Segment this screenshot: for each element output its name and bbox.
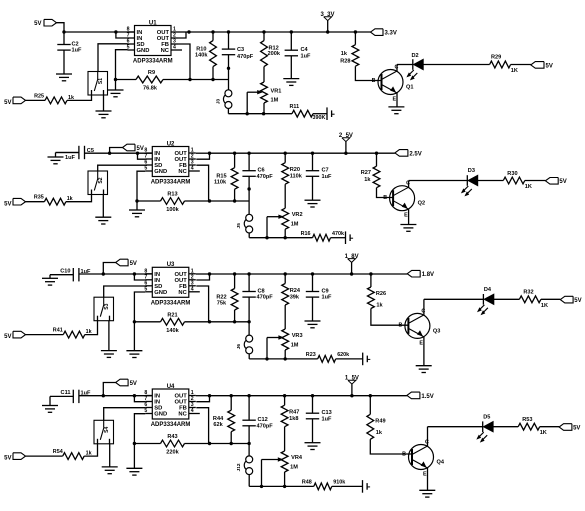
resistor R15 110k divider bbox=[214, 153, 238, 201]
resistor R13 100k feedback bbox=[137, 192, 211, 214]
resistor R12 200k bbox=[261, 32, 281, 67]
svg-text:U3: U3 bbox=[167, 262, 175, 268]
svg-text:S4: S4 bbox=[104, 427, 110, 433]
potentiometer VR3 1M bbox=[267, 305, 303, 359]
svg-text:R29: R29 bbox=[491, 55, 501, 61]
svg-text:3.3V: 3.3V bbox=[385, 31, 397, 37]
svg-text:R53: R53 bbox=[522, 417, 532, 423]
svg-text:470pF: 470pF bbox=[237, 54, 254, 60]
svg-text:R13: R13 bbox=[167, 192, 177, 198]
capacitor C10 1uF input bbox=[50, 268, 91, 281]
svg-text:R54: R54 bbox=[53, 449, 63, 455]
svg-text:E: E bbox=[423, 472, 427, 478]
node 1_5V power flag bbox=[345, 376, 359, 396]
resistor R54 1k bbox=[26, 444, 98, 460]
svg-text:R23: R23 bbox=[306, 352, 316, 358]
svg-text:GND: GND bbox=[137, 48, 150, 54]
op-amp U3 ADP3334ARM regulator bbox=[144, 262, 199, 306]
wire OUT pins junction U2 bbox=[196, 152, 211, 160]
wire FB line U3 bbox=[209, 320, 250, 323]
connector 5V right U3 row bbox=[560, 296, 581, 304]
svg-text:VR2: VR2 bbox=[292, 212, 303, 218]
resistor R28 1k bbox=[340, 32, 359, 66]
connector 5V input U2 row bbox=[110, 144, 144, 153]
ground Q4 bbox=[419, 490, 435, 497]
svg-text:R28: R28 bbox=[340, 58, 350, 64]
svg-text:R35: R35 bbox=[34, 195, 44, 201]
svg-text:75k: 75k bbox=[217, 301, 227, 307]
ground U1 GND bbox=[108, 90, 124, 97]
svg-text:1k: 1k bbox=[364, 177, 371, 183]
svg-text:R32: R32 bbox=[523, 290, 533, 296]
svg-text:E: E bbox=[419, 340, 423, 346]
svg-text:R9: R9 bbox=[148, 70, 155, 76]
wire IN pin7 tie U4 bbox=[134, 396, 145, 402]
svg-text:1K: 1K bbox=[540, 430, 547, 436]
svg-text:J3: J3 bbox=[216, 99, 222, 105]
switch S2 bbox=[88, 171, 108, 195]
potentiometer VR2 1M bbox=[267, 184, 303, 238]
jumper J3 row1 bbox=[216, 90, 232, 109]
ground S1 bbox=[96, 95, 112, 118]
transistor Q1 bbox=[378, 65, 413, 103]
wire FB vertical U4 bbox=[196, 408, 208, 444]
wire OUT rail row1 bbox=[189, 30, 371, 33]
transistor Q2 bbox=[390, 181, 425, 219]
svg-text:1uF: 1uF bbox=[301, 53, 312, 59]
svg-text:Q4: Q4 bbox=[437, 460, 445, 466]
LED D3 bbox=[461, 168, 478, 196]
wire OUT rail U4 bbox=[210, 394, 407, 397]
resistor R21 140k feedback bbox=[134, 312, 211, 334]
wire Q3 base bbox=[371, 309, 409, 329]
connector 5V input U3 row bbox=[103, 259, 137, 274]
svg-text:1K: 1K bbox=[511, 68, 518, 74]
connector 5V row1 lower bbox=[4, 97, 25, 106]
ground switch S3 bbox=[101, 321, 117, 358]
svg-text:Q2: Q2 bbox=[418, 201, 425, 207]
resistor R48 910k bbox=[302, 480, 363, 490]
wire GND pin5 U3 bbox=[133, 292, 146, 351]
wire input rail U2 bbox=[85, 152, 153, 155]
wire jumper to lower line U4 bbox=[249, 475, 314, 488]
svg-text:ADP3334ARM: ADP3334ARM bbox=[151, 180, 191, 186]
svg-text:J6: J6 bbox=[236, 344, 242, 350]
ground Q2 bbox=[400, 225, 416, 232]
resistor R22 75k divider bbox=[216, 274, 238, 322]
wire SD to switch U4 bbox=[104, 408, 146, 421]
svg-text:1K: 1K bbox=[541, 303, 548, 309]
wire SD to S1 row1 bbox=[98, 44, 128, 72]
svg-text:470pF: 470pF bbox=[257, 174, 274, 180]
wire FB vertical U3 bbox=[196, 286, 208, 322]
connector 5V right U2 row bbox=[545, 178, 566, 186]
wire Q2 collector bbox=[409, 181, 468, 188]
svg-text:C4: C4 bbox=[301, 47, 309, 53]
wire Q1 base bbox=[355, 66, 381, 84]
wire GND pin5 U2 bbox=[135, 171, 145, 210]
svg-text:220k: 220k bbox=[166, 450, 179, 456]
node 2_5V power flag bbox=[339, 133, 353, 153]
svg-text:C6: C6 bbox=[258, 168, 265, 174]
svg-text:1uF: 1uF bbox=[322, 416, 333, 422]
ground C4 bbox=[283, 79, 299, 86]
svg-text:620k: 620k bbox=[337, 352, 349, 358]
svg-text:Q1: Q1 bbox=[406, 85, 413, 91]
ground C2 bbox=[56, 74, 72, 81]
svg-text:R10: R10 bbox=[196, 47, 206, 53]
svg-text:R30: R30 bbox=[507, 171, 517, 177]
svg-text:5V: 5V bbox=[4, 456, 11, 462]
wire FB vertical row1 bbox=[178, 44, 190, 80]
op-amp U4 ADP3334ARM regulator bbox=[144, 384, 199, 428]
ground C9 bbox=[305, 321, 321, 328]
svg-text:ADP3334ARM: ADP3334ARM bbox=[151, 422, 191, 428]
svg-text:5V: 5V bbox=[137, 146, 144, 152]
svg-text:1.8V: 1.8V bbox=[422, 272, 434, 278]
wire FB line U2 bbox=[209, 199, 250, 202]
wire GND pin5 U4 bbox=[133, 414, 146, 469]
svg-text:B: B bbox=[383, 195, 387, 201]
resistor R32 1K bbox=[519, 290, 560, 309]
svg-text:B: B bbox=[398, 323, 402, 329]
wire IN pin7 tie U2 bbox=[138, 153, 146, 159]
svg-text:4: 4 bbox=[191, 408, 194, 414]
svg-text:E: E bbox=[393, 97, 397, 103]
svg-text:R49: R49 bbox=[375, 418, 385, 424]
svg-text:D2: D2 bbox=[412, 53, 419, 59]
connector 5V input row1 bbox=[34, 19, 56, 27]
wire SD to switch U3 bbox=[104, 286, 146, 297]
svg-text:100k: 100k bbox=[166, 207, 179, 213]
wire jumper to lower line U2 bbox=[249, 233, 312, 239]
svg-text:ADP3334ARM: ADP3334ARM bbox=[151, 301, 191, 307]
wire OUT pins junction row1 bbox=[178, 30, 191, 38]
resistor R23 620k bbox=[306, 352, 363, 362]
connector 5V row1 right bbox=[531, 62, 553, 70]
svg-text:1uF: 1uF bbox=[65, 155, 76, 161]
svg-text:1k: 1k bbox=[376, 303, 383, 309]
svg-text:1M: 1M bbox=[291, 222, 299, 228]
svg-text:D3: D3 bbox=[468, 168, 475, 174]
svg-text:5V: 5V bbox=[559, 179, 566, 185]
termination U2 row bbox=[346, 231, 354, 244]
capacitor C9 1uF output bbox=[306, 274, 332, 321]
svg-text:1k8: 1k8 bbox=[289, 416, 298, 422]
svg-text:Q3: Q3 bbox=[433, 328, 440, 334]
jumper J12 U4 row bbox=[236, 456, 253, 475]
resistor R20 110k divider top bbox=[282, 153, 303, 184]
svg-text:U1: U1 bbox=[149, 20, 157, 26]
svg-text:76.8k: 76.8k bbox=[143, 86, 158, 92]
resistor R47 1k8 divider top bbox=[281, 396, 299, 427]
svg-text:1k: 1k bbox=[376, 430, 383, 436]
svg-text:R11: R11 bbox=[290, 104, 300, 110]
svg-text:1uF: 1uF bbox=[322, 295, 333, 301]
svg-text:390K: 390K bbox=[313, 115, 326, 121]
LED D5 bbox=[476, 414, 493, 442]
svg-text:C9: C9 bbox=[322, 288, 329, 294]
connector 5V lower U2 row bbox=[4, 198, 25, 207]
ground input cap U3 bbox=[42, 275, 58, 285]
wire OUT pins junction U3 bbox=[196, 272, 211, 280]
svg-text:R26: R26 bbox=[376, 291, 386, 297]
ground U4 GND pin bbox=[126, 468, 142, 475]
svg-text:62k: 62k bbox=[213, 422, 223, 428]
svg-text:470pF: 470pF bbox=[257, 423, 274, 429]
wire 5V input rail row1 bbox=[56, 23, 135, 34]
switch S4 bbox=[94, 420, 114, 444]
svg-text:R47: R47 bbox=[289, 410, 299, 416]
wire Q4 base bbox=[370, 439, 412, 457]
resistor R41 1k bbox=[26, 321, 98, 338]
connector 5V lower U4 row bbox=[4, 453, 25, 462]
capacitor C6 470pF bbox=[242, 153, 273, 214]
capacitor C3 470pF bbox=[222, 32, 254, 90]
wire LED D3 to resistor bbox=[478, 180, 504, 182]
node 3_3V power flag bbox=[320, 12, 334, 32]
wire Q1 collector bbox=[397, 65, 413, 72]
svg-text:140k: 140k bbox=[166, 328, 179, 334]
svg-text:1k: 1k bbox=[341, 51, 348, 57]
wire GND pin5 row1 bbox=[114, 50, 128, 90]
capacitor C8 470pF bbox=[242, 274, 273, 335]
ground switch S2 bbox=[95, 195, 111, 225]
svg-text:C8: C8 bbox=[258, 288, 265, 294]
resistor R29 1K bbox=[490, 55, 531, 75]
svg-text:5V: 5V bbox=[4, 334, 11, 340]
transistor Q4 bbox=[409, 440, 445, 478]
svg-text:1uF: 1uF bbox=[72, 48, 83, 54]
svg-text:NC: NC bbox=[178, 412, 187, 418]
svg-text:S3: S3 bbox=[104, 303, 110, 309]
svg-text:5V: 5V bbox=[130, 261, 137, 267]
svg-text:VR4: VR4 bbox=[291, 455, 303, 461]
LED D4 bbox=[477, 287, 494, 315]
svg-text:C7: C7 bbox=[322, 168, 329, 174]
node 1_8V power flag bbox=[345, 254, 359, 274]
svg-text:VR1: VR1 bbox=[271, 89, 282, 95]
svg-text:ADP3334ARM: ADP3334ARM bbox=[133, 59, 173, 65]
jumper J5 U2 row bbox=[236, 214, 253, 233]
svg-text:NC: NC bbox=[161, 48, 170, 54]
termination U4 row bbox=[363, 480, 371, 493]
svg-text:R24: R24 bbox=[290, 288, 301, 294]
svg-text:R20: R20 bbox=[290, 167, 300, 173]
connector 5V input U4 row bbox=[103, 379, 137, 396]
capacitor C5 1uF input bbox=[56, 146, 94, 161]
svg-text:GND: GND bbox=[154, 290, 167, 296]
svg-text:4: 4 bbox=[191, 287, 194, 293]
wire IN pin7 tie U3 bbox=[134, 274, 145, 280]
resistor R26 1k collector bbox=[368, 274, 387, 309]
svg-text:D5: D5 bbox=[483, 414, 490, 420]
capacitor C11 1uF input bbox=[50, 390, 91, 403]
potentiometer VR4 1M bbox=[262, 427, 303, 487]
svg-text:S1: S1 bbox=[98, 78, 104, 84]
termination row1 bbox=[327, 107, 335, 120]
ground U2 GND pin bbox=[129, 210, 145, 217]
svg-text:910k: 910k bbox=[333, 480, 345, 486]
svg-text:VR3: VR3 bbox=[292, 333, 303, 339]
connector 5V lower U3 row bbox=[4, 331, 25, 340]
capacitor C13 1uF output bbox=[306, 396, 332, 443]
wire LED D5 to resistor bbox=[493, 426, 518, 428]
resistor R35 1k bbox=[26, 195, 92, 206]
ground input cap U2 bbox=[48, 153, 79, 164]
svg-text:4: 4 bbox=[191, 166, 194, 172]
wire FB line U4 bbox=[209, 442, 250, 445]
wire Q3 collector bbox=[424, 299, 484, 315]
resistor R44 62k divider bbox=[213, 396, 235, 444]
wire IN pin7 tie row1 bbox=[116, 32, 128, 38]
resistor R25 1k bbox=[26, 94, 92, 104]
ground input cap U4 bbox=[42, 396, 58, 412]
wire lower line row1 bbox=[228, 109, 292, 116]
wire Q2 emitter bbox=[408, 209, 410, 224]
resistor R9 76.8k bbox=[116, 70, 192, 92]
svg-text:5V: 5V bbox=[34, 21, 41, 27]
svg-text:C11: C11 bbox=[61, 390, 71, 396]
capacitor C12 470pF bbox=[242, 396, 273, 456]
ground Q3 bbox=[416, 366, 432, 373]
svg-text:C12: C12 bbox=[258, 417, 268, 423]
connector 2.5V output bbox=[395, 150, 422, 158]
wire OUT rail U2 bbox=[210, 152, 395, 155]
switch S1 bbox=[88, 72, 108, 96]
wire LED D2 to R29 bbox=[423, 64, 489, 66]
wire Q4 collector bbox=[428, 427, 483, 446]
transistor Q3 bbox=[405, 308, 440, 346]
wire input rail U3 bbox=[79, 272, 152, 275]
svg-text:U2: U2 bbox=[167, 141, 175, 147]
svg-text:5V: 5V bbox=[573, 425, 580, 431]
svg-text:200k: 200k bbox=[268, 51, 281, 57]
wire LED D4 to resistor bbox=[494, 298, 520, 300]
ground switch S4 bbox=[102, 444, 118, 474]
svg-text:5V: 5V bbox=[4, 201, 11, 207]
svg-text:C13: C13 bbox=[322, 410, 332, 416]
svg-text:110k: 110k bbox=[290, 174, 303, 180]
svg-text:E: E bbox=[404, 213, 408, 219]
svg-text:D4: D4 bbox=[484, 287, 492, 293]
termination U3 row bbox=[363, 353, 371, 366]
wire jumper to lower line U3 bbox=[249, 354, 318, 361]
svg-text:2.5V: 2.5V bbox=[409, 151, 421, 157]
potentiometer VR1 1M bbox=[247, 67, 281, 114]
svg-text:1K: 1K bbox=[525, 184, 532, 190]
svg-text:S2: S2 bbox=[98, 177, 104, 183]
svg-text:R21: R21 bbox=[167, 312, 177, 318]
jumper J6 U3 row bbox=[236, 335, 253, 354]
svg-text:1uF: 1uF bbox=[81, 269, 92, 275]
wire OUT rail U3 bbox=[210, 272, 408, 275]
connector 5V right U4 row bbox=[559, 424, 580, 432]
ground U3 GND pin bbox=[126, 351, 142, 358]
svg-text:GND: GND bbox=[154, 412, 167, 418]
connector 1.8V output bbox=[407, 270, 434, 278]
svg-text:C2: C2 bbox=[72, 41, 79, 47]
resistor R43 220k feedback bbox=[134, 434, 211, 456]
svg-text:C3: C3 bbox=[237, 47, 244, 53]
wire OUT pins junction U4 bbox=[196, 394, 211, 402]
svg-text:5V: 5V bbox=[546, 63, 553, 69]
resistor R27 1k collector bbox=[361, 153, 380, 188]
svg-text:1M: 1M bbox=[290, 465, 298, 471]
wire input rail U4 bbox=[79, 394, 152, 397]
svg-text:B: B bbox=[372, 78, 376, 84]
wire Q1 emitter bbox=[396, 93, 398, 107]
wire FB line row1 bbox=[190, 78, 229, 81]
svg-text:B: B bbox=[402, 451, 406, 457]
svg-text:5V: 5V bbox=[130, 381, 137, 387]
svg-text:140k: 140k bbox=[195, 53, 208, 59]
capacitor C2 1uF bbox=[57, 32, 82, 74]
connector 1.5V output bbox=[407, 392, 434, 400]
svg-text:470k: 470k bbox=[332, 231, 344, 237]
svg-text:1M: 1M bbox=[291, 343, 299, 349]
LED D2 bbox=[406, 53, 423, 80]
wire Q4 emitter bbox=[427, 468, 429, 490]
ground Q1 bbox=[388, 107, 404, 114]
svg-text:J12: J12 bbox=[236, 463, 242, 471]
wire Q2 base bbox=[377, 188, 394, 201]
capacitor C4 1uF bbox=[285, 32, 311, 79]
svg-text:NC: NC bbox=[178, 169, 187, 175]
switch S3 bbox=[94, 297, 114, 321]
wire Q3 emitter bbox=[423, 337, 425, 366]
resistor R53 1K bbox=[518, 417, 559, 436]
svg-text:470pF: 470pF bbox=[257, 295, 274, 301]
ground C7 bbox=[305, 200, 321, 207]
svg-text:C10: C10 bbox=[60, 269, 70, 275]
svg-text:R48: R48 bbox=[302, 480, 312, 486]
resistor R24 39k divider top bbox=[282, 274, 301, 305]
svg-text:J5: J5 bbox=[236, 223, 242, 229]
svg-text:5V: 5V bbox=[574, 298, 581, 304]
wire SD to switch U2 bbox=[98, 165, 146, 171]
resistor R10 140k bbox=[195, 32, 216, 80]
svg-text:U4: U4 bbox=[167, 384, 175, 390]
wire FB vertical U2 bbox=[196, 165, 208, 201]
connector 3.3V output bbox=[371, 29, 397, 37]
svg-text:R27: R27 bbox=[361, 170, 371, 176]
svg-text:R41: R41 bbox=[53, 328, 63, 334]
capacitor C7 1uF output bbox=[306, 153, 332, 200]
resistor R49 1k collector bbox=[367, 396, 386, 440]
svg-text:GND: GND bbox=[154, 169, 167, 175]
resistor R30 1K bbox=[503, 171, 545, 190]
op-amp U1 ADP3334ARM regulator bbox=[127, 20, 182, 64]
svg-text:R16: R16 bbox=[301, 231, 311, 237]
svg-text:1uF: 1uF bbox=[81, 391, 92, 397]
svg-text:1M: 1M bbox=[271, 98, 279, 104]
op-amp U2 ADP3334ARM regulator bbox=[144, 141, 199, 185]
svg-text:39k: 39k bbox=[290, 294, 300, 300]
svg-text:NC: NC bbox=[178, 290, 187, 296]
svg-text:R25: R25 bbox=[34, 94, 44, 100]
ground C13 bbox=[305, 443, 321, 450]
svg-text:1.5V: 1.5V bbox=[421, 394, 433, 400]
svg-text:R43: R43 bbox=[167, 434, 177, 440]
svg-text:C5: C5 bbox=[87, 148, 94, 154]
svg-text:1uF: 1uF bbox=[322, 174, 333, 180]
resistor R11 390K bbox=[290, 104, 328, 121]
svg-text:4: 4 bbox=[173, 45, 176, 51]
svg-text:5V: 5V bbox=[4, 100, 11, 106]
svg-text:110k: 110k bbox=[214, 180, 227, 186]
resistor R16 470k bbox=[301, 231, 346, 241]
